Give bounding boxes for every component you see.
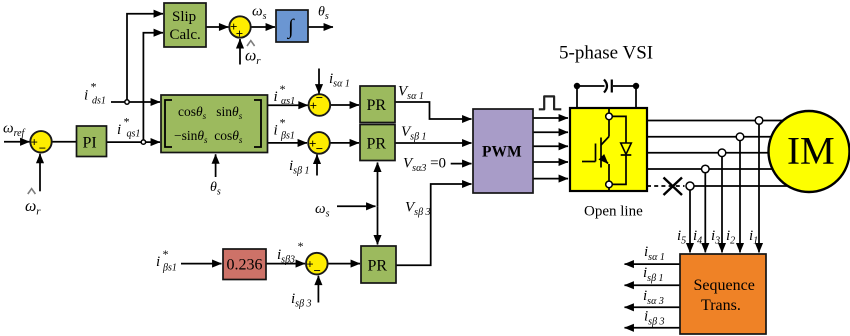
svg-text:Sequence: Sequence: [694, 277, 755, 294]
svg-text:+: +: [31, 135, 38, 150]
diode branch top: [612, 116, 626, 143]
VSI collector drop: [608, 120, 610, 137]
sum S2 (slip + omega_r): [229, 16, 250, 37]
wire i4 tap down: [704, 173, 706, 252]
svg-text:Calc.: Calc.: [170, 27, 201, 43]
wire i*_ds1 to matrix: [111, 101, 160, 103]
svg-text:5-phase VSI: 5-phase VSI: [559, 43, 653, 64]
wire PWM to VSI gate 4: [533, 161, 568, 163]
IGBT collector diagonal: [601, 137, 609, 146]
wire vertical down into PR3 top: [377, 206, 379, 244]
wire S2 to integrator: [251, 26, 275, 28]
wire node ds1 up to Slip Calc input 1: [127, 14, 163, 102]
node on phase line 5: [686, 182, 694, 190]
svg-text:*: *: [279, 116, 285, 130]
wire sequence out i_sbeta3: [625, 327, 681, 329]
wire PR3 to PWM (V_sbeta3): [396, 184, 472, 265]
block PI: [77, 126, 107, 157]
block rotation matrix: [161, 95, 268, 153]
svg-text:0.236: 0.236: [227, 257, 263, 274]
wire i*_bs1 into 0.236: [181, 263, 222, 265]
svg-text:*: *: [123, 115, 129, 129]
wire vertical up into PR2 bottom: [377, 163, 379, 207]
wire PWM to VSI gate 2: [533, 131, 568, 133]
wire cap left stub: [576, 86, 578, 107]
junction dot left: [574, 83, 580, 89]
VSI interior: collector wire: [608, 108, 610, 113]
wire PR2 to PWM (V_sbeta1): [395, 142, 472, 144]
svg-text:i: i: [274, 123, 278, 139]
svg-text:−sinθs cosθs: −sinθs cosθs: [174, 128, 243, 145]
wire phase line 5 solid after node: [694, 185, 790, 187]
svg-text:qs1: qs1: [127, 129, 141, 140]
svg-text:IM: IM: [787, 130, 835, 173]
block PWM: [473, 109, 533, 193]
wire cap right stub: [635, 86, 637, 107]
wire phase line 3: [647, 152, 790, 154]
wire i2 tap down: [739, 141, 741, 253]
svg-text:Trans.: Trans.: [701, 297, 741, 314]
wire omega_s into resonant line: [337, 205, 376, 207]
sum S1 (speed error): [30, 131, 51, 152]
svg-text:*: *: [90, 80, 96, 94]
block PR3: [361, 246, 396, 283]
wire PWM to VSI gate 5: [533, 178, 568, 180]
block PR2: [360, 125, 395, 161]
wire PWM to VSI gate 3: [533, 145, 568, 147]
wire i3 tap down: [721, 157, 723, 253]
svg-text:i: i: [117, 122, 121, 138]
svg-text:αs1: αs1: [281, 96, 295, 107]
svg-text:PR: PR: [367, 97, 387, 114]
open-line X mark: [664, 178, 683, 196]
block VSI: [570, 108, 647, 191]
svg-text:i: i: [84, 88, 88, 104]
VSI top node circle: [606, 113, 613, 120]
wire matrix alpha output to sum S3: [268, 104, 308, 106]
pulse glyph: [539, 96, 562, 109]
wire i5 tap down: [689, 190, 691, 252]
block integrator: [276, 10, 308, 42]
wire sequence out i_sbeta1: [625, 284, 681, 286]
junction dot right: [633, 83, 639, 89]
IGBT body bar: [600, 138, 602, 168]
wire integrator output theta_s: [308, 26, 333, 28]
wire S1 to PI: [52, 141, 77, 143]
svg-text:Slip: Slip: [172, 9, 196, 25]
wire phase line 2: [647, 136, 790, 138]
svg-text:+: +: [310, 98, 317, 113]
svg-text:PR: PR: [368, 258, 388, 275]
svg-text:*: *: [297, 239, 303, 253]
svg-text:−: −: [316, 141, 323, 156]
svg-text:PWM: PWM: [482, 144, 522, 161]
wire theta_s up into matrix bottom: [215, 154, 217, 177]
svg-text:*: *: [162, 247, 168, 261]
svg-text:−: −: [39, 141, 46, 156]
node on phase line 4: [702, 165, 710, 173]
wire cap line right: [613, 85, 636, 87]
label omega_r hat (top): [247, 41, 255, 46]
node on i*_qs1 line: [141, 140, 145, 144]
wire phase line 1: [647, 120, 790, 122]
sum S3 (alpha1 error): [309, 94, 331, 116]
svg-text:cosθs sinθs: cosθs sinθs: [178, 104, 243, 121]
sum S5 (beta3 error): [306, 253, 328, 275]
wire phase line 5 dashed (open): [647, 185, 685, 187]
wire PI to matrix (i*_qs1): [107, 141, 161, 143]
svg-text:−: −: [314, 263, 321, 278]
svg-text:+: +: [236, 26, 243, 41]
svg-text:i: i: [274, 89, 278, 105]
sum S4 (beta1 error): [308, 132, 330, 154]
wire phase line 4: [647, 168, 790, 170]
block gain 0.236: [223, 249, 266, 280]
svg-text:Open line: Open line: [584, 204, 643, 220]
IGBT gate lead: [582, 161, 596, 163]
wire cap line left: [577, 85, 605, 87]
svg-text:i: i: [156, 254, 160, 270]
wire i_salpha1 down into S3: [318, 69, 320, 94]
VSI bottom stub: [608, 188, 610, 191]
wire matrix beta output to sum S4: [268, 142, 308, 144]
svg-text:PR: PR: [367, 136, 387, 153]
wire PR1 to PWM (V_salpha1): [395, 102, 472, 119]
wire PWM to VSI gate 1: [533, 117, 568, 119]
VSI bottom node circle: [606, 181, 613, 188]
wire i_sbeta3 up into S5: [317, 276, 319, 303]
machine IM: [769, 111, 850, 192]
node on phase line 2: [736, 133, 744, 141]
block Sequence Trans: [680, 254, 766, 334]
wire sequence out i_salpha1: [625, 263, 681, 265]
svg-text:PI: PI: [83, 135, 97, 152]
wire omega_r_hat feedback up into sum S1: [39, 154, 41, 192]
capacitor C symbol: [604, 80, 607, 93]
node on phase line 3: [718, 149, 726, 157]
diode branch bottom: [612, 155, 626, 184]
wire node qs1 up to Slip Calc input 2: [143, 33, 163, 142]
wire i1 tap down: [758, 125, 760, 253]
svg-text:ds1: ds1: [92, 96, 106, 107]
diode cathode bar: [621, 154, 632, 156]
wire i_sbeta1 up into S4: [316, 155, 318, 176]
wire 0.236 to sum S5: [266, 263, 305, 265]
svg-text:βs1: βs1: [280, 131, 295, 142]
node on i*_ds1 line: [125, 100, 129, 104]
wire sequence out i_salpha3: [625, 306, 681, 308]
wire S4 to PR2: [330, 142, 359, 144]
svg-text:∫: ∫: [286, 15, 295, 40]
wire omega_ref input arrow: [4, 141, 30, 143]
svg-text:*: *: [279, 82, 285, 96]
IGBT emitter wire down: [608, 164, 610, 181]
wire Slip Calc to sum S2: [206, 26, 228, 28]
block PR1: [360, 86, 395, 123]
label omega_r hat (left): [28, 189, 36, 194]
svg-text:βs1: βs1: [162, 263, 177, 274]
IGBT emitter diagonal with arrow: [601, 157, 608, 164]
diode triangle: [621, 143, 632, 154]
block Slip Calc: [164, 3, 206, 47]
wire S5 to PR3: [328, 263, 361, 265]
node on phase line 1: [755, 117, 763, 125]
wire omega_r_hat up into sum S2: [239, 39, 241, 65]
IGBT gate bar: [595, 144, 597, 162]
wire S3 to PR1: [330, 104, 359, 106]
wire V_salpha3=0 into PWM: [451, 163, 472, 165]
